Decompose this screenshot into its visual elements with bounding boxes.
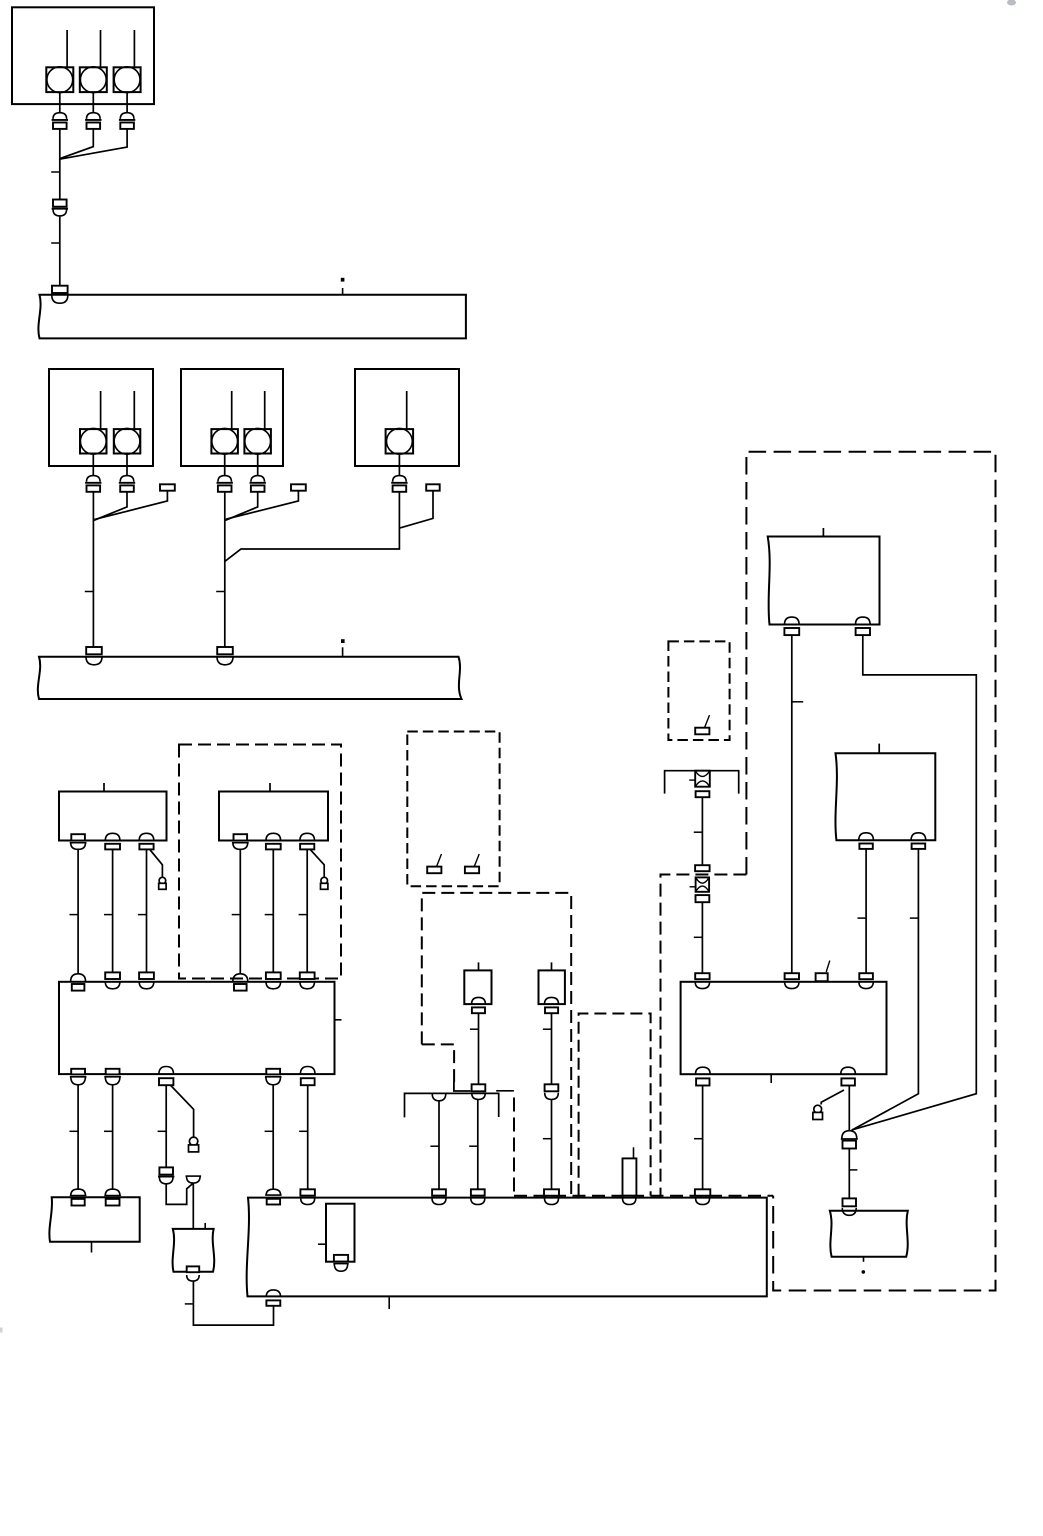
tick wire E2	[104, 1130, 113, 1132]
stub above unit F	[269, 783, 271, 792]
spare connector right of A	[160, 484, 175, 490]
tick wire P1	[792, 701, 803, 703]
stub wire above bulb 1	[66, 30, 68, 67]
ring terminal R	[813, 1105, 823, 1119]
pin into box H right	[104, 1189, 121, 1205]
tick into bus1	[342, 288, 344, 295]
fuse 2	[690, 877, 710, 891]
connector strip (staple)	[405, 1093, 499, 1117]
box: unit H (continuation)	[49, 1197, 139, 1242]
coupler on strip left	[432, 1093, 446, 1100]
tick wire D3	[138, 914, 147, 916]
stub under box R	[770, 1074, 772, 1083]
wire: main feed from bulb1 down to bus1	[59, 129, 61, 286]
inline connector fuse wire	[695, 865, 710, 871]
wire V1 to box R	[865, 849, 867, 973]
wire from box I to long box	[193, 1281, 273, 1325]
pin R-top-2	[785, 973, 799, 988]
wire E4 to long box	[272, 1085, 274, 1189]
box: lamp cluster A	[49, 369, 153, 466]
unit inside long box	[326, 1204, 355, 1262]
switch 1 in enclosure J	[427, 854, 441, 873]
wire fuse1 to coupler	[701, 797, 703, 865]
pin E-bot-3	[159, 1067, 174, 1086]
stub above unit D	[103, 783, 105, 792]
pin F3	[300, 833, 315, 849]
pin R-bot-2	[841, 1067, 856, 1085]
connector under B1	[217, 476, 233, 492]
wire coupler to box I	[192, 1183, 194, 1229]
wire: C spare branch	[400, 491, 433, 528]
pin V1	[859, 833, 874, 849]
coupler under resistor	[623, 1198, 636, 1204]
box: unit P (continuation)	[768, 537, 880, 625]
pin into box H left	[70, 1189, 87, 1205]
stub wire above bulb A1	[100, 391, 102, 429]
pin E-top-2	[105, 972, 120, 988]
relay unit 1	[464, 970, 491, 1004]
connector at bus2 mid	[217, 647, 233, 665]
stub above unit V	[878, 744, 880, 754]
wire D2 to box E	[112, 850, 114, 973]
pin long-box-top-1	[265, 1189, 281, 1204]
branch to ring terminal R	[821, 1090, 844, 1105]
branch to ring terminal at D3	[150, 850, 162, 877]
tick wire V1	[858, 917, 867, 919]
bracket right of staple	[496, 1090, 514, 1092]
wire: B2 branch	[225, 492, 257, 521]
connector at unit W	[842, 1198, 856, 1215]
box: lamp cluster B	[181, 369, 283, 466]
bus box 2 (harness)	[38, 657, 462, 699]
tick relay2 wire	[543, 1028, 552, 1030]
box: unit F	[219, 792, 328, 841]
dashed enclosure K outline	[422, 893, 571, 1196]
box: unit W (continuation)	[830, 1211, 908, 1257]
marker dot under unit W	[862, 1270, 866, 1274]
pin long-box-top-2	[300, 1189, 315, 1204]
junction box E	[59, 982, 335, 1074]
pin E-bot-1	[70, 1069, 87, 1085]
bulb B2	[244, 428, 271, 454]
box: unit I (continuation)	[173, 1229, 215, 1272]
bulb A1	[80, 428, 107, 454]
pin E-top-5	[266, 972, 281, 988]
bulb 3 in top cluster	[114, 67, 141, 93]
inline connector on main feed	[52, 200, 68, 216]
branch to ring terminal at F3	[311, 850, 325, 877]
pin long-box-top-5	[544, 1189, 559, 1204]
stub wire above bulb 3	[133, 30, 135, 67]
tick on main feed lower	[51, 242, 60, 244]
pin long-box-top-6	[695, 1189, 710, 1204]
ring terminal E3	[189, 1137, 199, 1152]
connector under C1	[391, 476, 407, 492]
pin D1	[70, 834, 87, 849]
connector at bus1	[52, 286, 68, 304]
wire F2 to box E	[272, 850, 274, 973]
wire: bulb2 branch joining main	[60, 129, 93, 158]
connector under A2	[119, 476, 135, 492]
pin E-top-1	[71, 974, 86, 991]
pin E-top-6	[300, 972, 315, 988]
connector under bulb1	[52, 113, 68, 129]
ring terminal F3	[321, 877, 328, 889]
wire bulb B2 to connector	[257, 454, 259, 476]
wire to unit W	[848, 1149, 850, 1199]
wire bulb3 to connector	[126, 92, 128, 113]
spare connector right of B	[291, 484, 306, 490]
wire bulb C1 to connector	[398, 454, 400, 476]
tick wire F2	[265, 914, 274, 916]
bracket left of connector strip	[454, 1082, 471, 1091]
inline connector relay1 wire	[472, 1084, 486, 1099]
wire P2 long run	[853, 635, 977, 1130]
wire strip-left to long box	[438, 1101, 440, 1190]
inline connector on E3 wire	[158, 1167, 174, 1183]
tick wire F1	[232, 914, 241, 916]
junction box R	[681, 982, 887, 1074]
wire D1 to box E	[77, 850, 79, 975]
ring terminal D3	[159, 877, 166, 889]
bulb B1	[211, 428, 238, 454]
pin E-top-4	[233, 974, 248, 991]
connector under bulb2	[85, 113, 101, 129]
tick on main feed	[51, 171, 60, 173]
lever pin R-top-3	[816, 961, 830, 982]
stub wire above bulb C1	[406, 391, 408, 429]
switch in enclosure Q	[695, 715, 709, 734]
dashed bottom rail above long box	[514, 1195, 773, 1197]
pin R-top-1	[695, 973, 709, 988]
connector under B2	[250, 476, 266, 492]
wire: E3 loop to second coupler	[166, 1183, 193, 1204]
stub wire above bulb B2	[264, 391, 266, 429]
wire D3 to box E	[146, 850, 148, 973]
dashed enclosure J (switch unit)	[407, 732, 499, 887]
pin E-bot-4	[265, 1069, 282, 1085]
tick on box I wire	[185, 1303, 194, 1305]
stub under box H	[91, 1242, 93, 1253]
pin D2	[105, 833, 120, 849]
tick wire R1	[694, 1138, 703, 1140]
tick wire D2	[104, 914, 113, 916]
pin E-bot-2	[104, 1069, 121, 1085]
pin box I bottom	[187, 1266, 200, 1281]
tick relay2 lower wire	[543, 1138, 552, 1140]
tick wire E5	[299, 1130, 308, 1132]
connector under bulb3	[119, 113, 135, 129]
pin V2	[911, 833, 926, 849]
stub wire above bulb 2	[100, 30, 102, 67]
spare connector right of C	[426, 484, 440, 490]
wire relay2 lower	[551, 1100, 553, 1190]
pin relay2 bottom	[545, 997, 559, 1013]
wire: A main feed to bus2	[92, 492, 94, 647]
stub above unit P	[822, 528, 824, 537]
pin E-top-3	[139, 972, 154, 988]
connector under A1	[85, 476, 101, 492]
wire strip-right to long box	[477, 1100, 479, 1190]
box: top lamp cluster	[12, 7, 154, 104]
wire bulb B1 to connector	[224, 454, 226, 476]
wire fuse2 to box R	[701, 902, 703, 973]
tick on internal unit	[318, 1243, 326, 1245]
tick wire E3	[158, 1130, 167, 1132]
wire E5 to long box	[307, 1085, 309, 1189]
coupler above box I	[186, 1176, 202, 1183]
wire R2 to coupler	[848, 1086, 850, 1131]
bulb 1 in top cluster	[46, 67, 73, 93]
tick strip-right wire	[469, 1145, 478, 1147]
dashed enclosure M (resistor)	[579, 1014, 651, 1196]
wire F3 to box E	[306, 850, 308, 973]
stub wire above bulb B1	[231, 391, 233, 429]
wire P1 to box R	[791, 635, 793, 973]
wire bulb A1 to connector	[92, 454, 94, 476]
tick on W wire	[849, 1169, 857, 1171]
pin R-top-4	[859, 973, 873, 988]
pin P2	[856, 617, 871, 635]
stub under unit W	[863, 1257, 865, 1262]
relay unit 2	[539, 970, 565, 1004]
wire E3 down	[165, 1085, 167, 1167]
inline connector relay2 wire	[545, 1084, 559, 1099]
wire relay2 down	[551, 1013, 553, 1084]
pin P1	[784, 617, 799, 635]
connector strip for fuse	[665, 771, 739, 794]
wire: C feed	[225, 492, 400, 562]
tick wire D1	[70, 914, 79, 916]
wire: A2 branch	[94, 492, 127, 521]
marker dot above bus1	[341, 278, 345, 282]
dashed enclosure S (fuse branch)	[661, 875, 747, 1196]
pin relay1 bottom	[472, 997, 486, 1013]
bulb 2 in top cluster	[80, 67, 107, 93]
pin F1	[232, 834, 249, 849]
tick on B feed	[216, 591, 225, 593]
pin under internal unit	[333, 1255, 348, 1271]
tick above box I	[204, 1223, 206, 1229]
marker dot above bus2	[341, 639, 345, 643]
stub under long box	[388, 1297, 390, 1309]
pin F2	[266, 833, 281, 849]
pin D3	[139, 833, 154, 849]
dashed enclosure Q (switch)	[668, 641, 729, 740]
box: unit V (continuation)	[835, 753, 935, 840]
tick into bus2	[342, 647, 344, 657]
tick wire E1	[70, 1130, 79, 1132]
tick fuse wire	[694, 831, 703, 833]
wire: B spare branch	[226, 491, 299, 519]
dashed enclosure G around lamp unit F	[179, 745, 341, 979]
bulb A2	[114, 428, 141, 454]
stub wire above bulb A2	[133, 391, 135, 429]
tick strip-left wire	[430, 1145, 439, 1147]
bulb C1	[386, 428, 414, 454]
box: lamp cluster C	[355, 369, 459, 466]
wire V2 long run	[852, 849, 919, 1130]
long box L (main harness)	[247, 1198, 767, 1297]
connector under fuse2	[696, 895, 710, 902]
tick on box E right edge	[335, 1019, 342, 1021]
wire bulb A2 to connector	[126, 454, 128, 476]
wire bulb1 to connector	[59, 92, 61, 113]
switch 2 in enclosure J	[465, 854, 479, 873]
tick wire E4	[265, 1130, 274, 1132]
wire: bulb3 branch joining main	[60, 129, 127, 159]
stub above resistor	[633, 1147, 635, 1158]
pin long-box-top-4	[471, 1189, 485, 1204]
box: unit D	[59, 792, 167, 841]
stub above relay 1	[478, 962, 480, 970]
pin R-bot-1	[696, 1067, 711, 1085]
tick wire F3	[299, 914, 308, 916]
corner smudge top-right	[1007, 0, 1016, 6]
bus box 1 (harness)	[38, 295, 465, 339]
tick fuse2 wire	[694, 936, 703, 938]
wire relay1 down	[478, 1013, 480, 1084]
wire bulb2 to connector	[92, 92, 94, 113]
connector at bus2 left	[86, 647, 102, 665]
pin E-bot-5	[300, 1067, 315, 1086]
fuse 1	[689, 771, 710, 787]
resistor in enclosure M	[623, 1158, 637, 1195]
stub above relay 2	[551, 962, 553, 970]
connector under fuse1	[696, 791, 710, 797]
tick wire V2	[910, 917, 919, 919]
branch to ring terminal at E3	[171, 1086, 194, 1138]
tick relay1 wire	[470, 1028, 479, 1030]
dashed enclosure N (right assembly)	[746, 452, 995, 1291]
wire E2 to box H	[112, 1085, 114, 1190]
tick on A feed	[85, 591, 94, 593]
edge smudge left	[0, 1328, 3, 1333]
wire R1 to long box	[702, 1086, 704, 1190]
coupler junction right	[841, 1131, 858, 1149]
wire E1 to box H	[77, 1085, 79, 1190]
wire: B main feed to bus2	[224, 492, 226, 647]
wire: A spare branch	[95, 491, 168, 519]
connector under long box	[266, 1290, 280, 1306]
pin long-box-top-3	[432, 1189, 446, 1204]
wire F1 to box E	[239, 850, 241, 975]
